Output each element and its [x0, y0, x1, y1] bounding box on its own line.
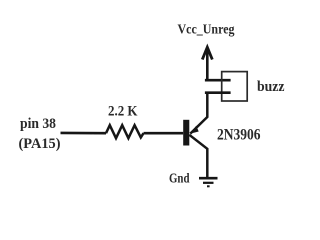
svg-text:buzz: buzz	[257, 79, 285, 95]
svg-text:(PA15): (PA15)	[19, 136, 61, 152]
transistor Q1 base bar	[183, 120, 189, 146]
svg-text:Gnd: Gnd	[169, 171, 190, 186]
power arrow Vcc_Unreg	[202, 47, 212, 80]
ground symbol	[199, 178, 218, 186]
svg-text:pin 38: pin 38	[20, 116, 56, 132]
transistor Q1 emitter lead	[190, 93, 207, 134]
wire buzzer bottom terminal to transistor emitter	[206, 91, 229, 94]
wire buzzer top terminal	[206, 79, 229, 82]
wire input from pin 38	[61, 132, 107, 135]
svg-text:Vcc_Unreg: Vcc_Unreg	[178, 23, 235, 38]
svg-text:2N3906: 2N3906	[217, 124, 261, 143]
resistor R1 2.2K zigzag	[106, 125, 144, 138]
transistor Q1 collector lead	[189, 135, 207, 178]
wire base from resistor	[144, 132, 184, 135]
svg-text:2.2 K: 2.2 K	[108, 104, 138, 120]
transistor Q1 emitter arrowhead (PNP)	[190, 126, 198, 134]
buzzer BZ box	[222, 72, 248, 101]
